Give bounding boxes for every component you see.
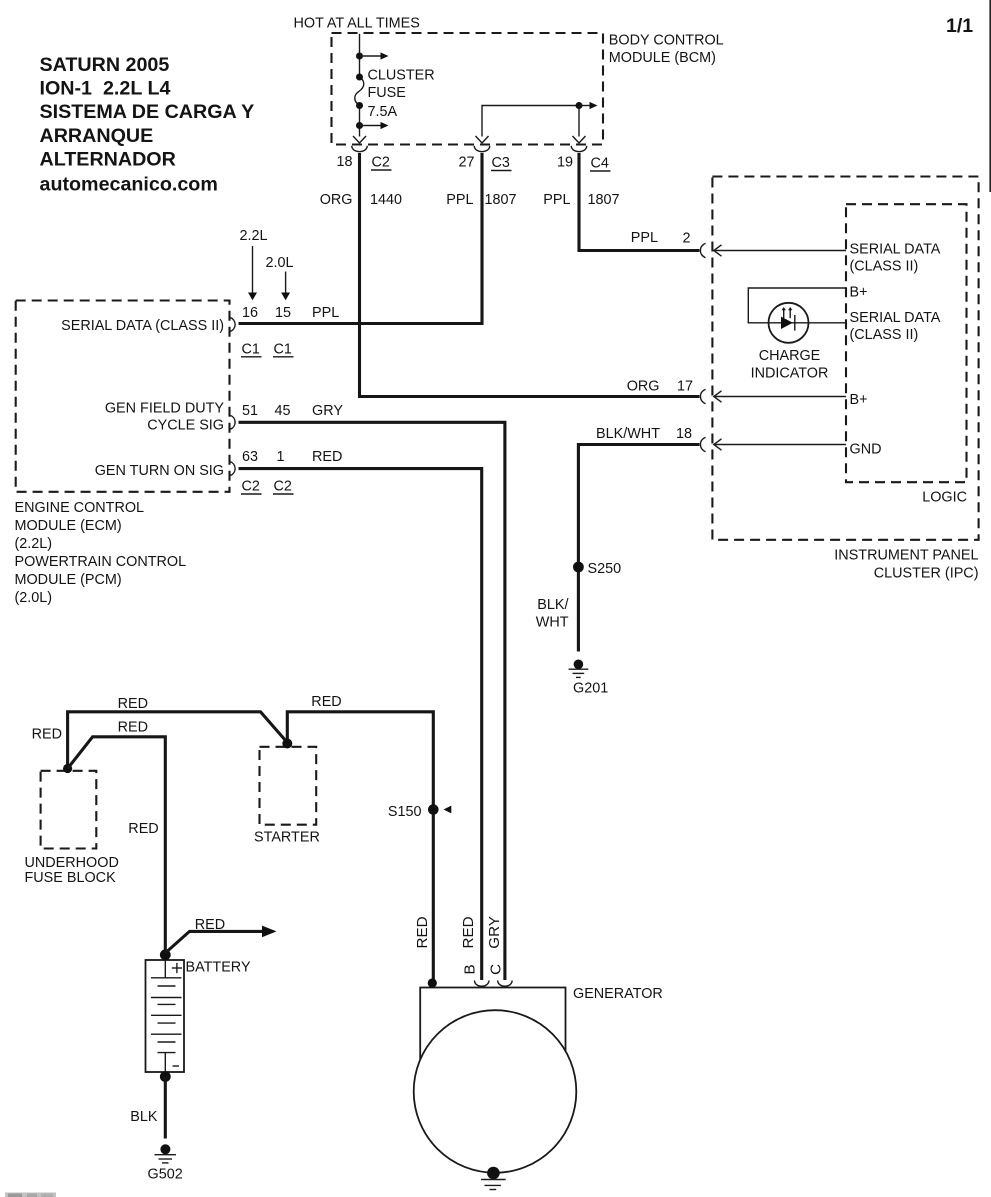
scan artifact right edge — [989, 0, 991, 192]
svg-text:SATURN 2005: SATURN 2005 — [40, 54, 170, 76]
svg-text:POWERTRAIN CONTROL: POWERTRAIN CONTROL — [15, 554, 187, 570]
svg-text:FUSE BLOCK: FUSE BLOCK — [25, 870, 117, 886]
svg-text:SERIAL DATA: SERIAL DATA — [850, 241, 941, 257]
generator housing box — [420, 988, 565, 1070]
wire RED underhood fuse block to starter and S150 — [68, 712, 288, 767]
svg-text:1440: 1440 — [370, 192, 402, 208]
svg-text:7.5A: 7.5A — [368, 104, 398, 120]
svg-text:GEN TURN ON SIG: GEN TURN ON SIG — [95, 463, 224, 479]
label UNDERHOOD FUSE BLOCK — [25, 855, 119, 886]
wire ORG C2 to IPC pin 17 — [360, 153, 700, 397]
svg-text:C: C — [488, 964, 505, 975]
svg-text:C3: C3 — [492, 155, 510, 171]
svg-text:(CLASS II): (CLASS II) — [850, 258, 919, 274]
svg-text:BLK/: BLK/ — [537, 597, 568, 613]
charge indicator lamp circle — [769, 303, 809, 343]
svg-text:RED: RED — [460, 916, 477, 948]
LOGIC pin label B+ upper — [850, 284, 868, 300]
svg-text:B+: B+ — [850, 284, 868, 300]
label LOGIC — [922, 490, 967, 506]
svg-text:CYCLE SIG: CYCLE SIG — [147, 417, 224, 433]
starter box — [260, 747, 317, 825]
svg-text:BODY CONTROL: BODY CONTROL — [609, 32, 724, 48]
svg-text:UNDERHOOD: UNDERHOOD — [25, 855, 119, 871]
svg-text:FUSE: FUSE — [368, 85, 406, 101]
underhood fuse block box — [41, 771, 97, 849]
wire PPL C4 to IPC pin 2 — [579, 153, 700, 251]
ECM pin name SERIAL DATA (CLASS II) — [61, 318, 224, 334]
ECM pin name GEN TURN ON SIG — [95, 463, 224, 479]
svg-text:RED: RED — [414, 916, 431, 948]
svg-text:1807: 1807 — [485, 192, 517, 208]
junction dot on starter — [282, 739, 292, 749]
LED symbol of charge indicator — [781, 315, 795, 331]
svg-text:2: 2 — [682, 231, 690, 247]
svg-text:1807: 1807 — [588, 192, 620, 208]
LOGIC pin label GND — [850, 441, 882, 457]
engine control module ECM box — [16, 301, 230, 492]
svg-text:PPL: PPL — [543, 192, 570, 208]
wire label RED battery drop — [128, 821, 158, 837]
svg-text:RED: RED — [32, 726, 62, 742]
ground G201 — [569, 660, 609, 697]
pin 27 label and C3 — [458, 155, 509, 172]
svg-text:WHT: WHT — [536, 614, 569, 630]
svg-text:MODULE (PCM): MODULE (PCM) — [15, 572, 122, 588]
svg-text:17: 17 — [677, 378, 693, 394]
svg-text:51: 51 — [242, 403, 258, 419]
generator RED entry junction dot — [428, 978, 437, 987]
splice S150 with arrow — [388, 804, 451, 820]
arrow into connector C2 — [353, 136, 366, 143]
pin labels 16 15 PPL — [242, 305, 339, 321]
label 2.2L with arrow to pin 16 — [240, 228, 268, 244]
wire RED battery feed arrow — [165, 926, 276, 953]
svg-text:19: 19 — [557, 155, 573, 171]
svg-text:ORG: ORG — [627, 378, 660, 394]
svg-text:ORG: ORG — [320, 192, 353, 208]
svg-text:MODULE (ECM): MODULE (ECM) — [15, 518, 122, 534]
battery positive terminal dot — [160, 949, 171, 960]
wire label PPL 1807 (C4) — [543, 192, 619, 208]
fuse tap arrow top — [360, 52, 389, 59]
svg-text:63: 63 — [242, 449, 258, 465]
svg-text:(CLASS II): (CLASS II) — [850, 327, 919, 343]
ECM caption text — [15, 500, 187, 606]
svg-text:15: 15 — [275, 305, 291, 321]
svg-text:GRY: GRY — [486, 916, 503, 949]
label CLUSTER FUSE 7.5A — [368, 68, 435, 121]
svg-text:S150: S150 — [388, 804, 422, 820]
svg-text:B: B — [462, 964, 479, 974]
pin 18 label and C2 — [336, 154, 389, 171]
fuse tap arrow bottom — [360, 122, 389, 129]
wire label ORG 1440 — [320, 192, 402, 208]
battery plus sign — [172, 963, 182, 973]
terminal label B rotated — [462, 964, 479, 974]
svg-text:BATTERY: BATTERY — [186, 959, 251, 975]
LED emission arrows — [782, 307, 793, 318]
connector C3 arc — [474, 146, 490, 152]
svg-text:CLUSTER (IPC): CLUSTER (IPC) — [874, 566, 979, 582]
svg-text:16: 16 — [242, 305, 258, 321]
svg-text:HOT AT ALL TIMES: HOT AT ALL TIMES — [294, 16, 420, 32]
wire label RED top — [118, 696, 148, 712]
wire label BLK — [130, 1109, 158, 1125]
wire label RED second — [118, 720, 148, 736]
pin labels 63 1 RED — [242, 449, 342, 465]
battery negative terminal dot — [160, 1071, 171, 1082]
splice S250 — [573, 561, 621, 577]
pin 19 label and C4 — [557, 155, 609, 172]
wire label RED battery arrow — [195, 917, 225, 933]
svg-text:C2: C2 — [274, 479, 292, 495]
label 2.0L with arrow to pin 15 — [266, 255, 294, 271]
svg-text:automecanico.com: automecanico.com — [40, 173, 218, 195]
instrument panel cluster IPC box — [712, 177, 978, 540]
svg-text:S250: S250 — [588, 561, 622, 577]
junction dot on fuse block — [63, 764, 72, 773]
arrow into connector C3 — [476, 136, 489, 143]
svg-text:BLK/WHT: BLK/WHT — [596, 426, 660, 442]
body control module BCM box — [332, 33, 604, 145]
wire label RED starter right — [311, 694, 341, 710]
scan artifact bottom left — [5, 1193, 56, 1197]
wire label RED rotated (terminal B) — [460, 916, 477, 948]
svg-text:GENERATOR: GENERATOR — [573, 986, 663, 1002]
title block — [40, 54, 255, 195]
wire label BLK/WHT vertical — [536, 597, 569, 630]
svg-text:B+: B+ — [850, 392, 868, 408]
svg-text:SERIAL DATA (CLASS II): SERIAL DATA (CLASS II) — [61, 318, 224, 334]
connector labels C1 C1 — [242, 341, 292, 357]
wire RED fuse block to battery — [68, 737, 166, 952]
svg-text:18: 18 — [676, 426, 692, 442]
svg-text:27: 27 — [458, 155, 474, 171]
wire RED ECM to generator B — [239, 469, 482, 980]
B+ loop wire to charge indicator — [748, 288, 846, 323]
wire PPL C3 to ECM pin 16/15 — [239, 153, 483, 324]
terminal label C rotated — [488, 964, 505, 975]
svg-text:SERIAL DATA: SERIAL DATA — [850, 310, 941, 326]
svg-text:INDICATOR: INDICATOR — [751, 365, 829, 381]
IPC pin 2 connector arc and arrow — [700, 243, 846, 257]
ECM connector arc pin 63/1 — [230, 461, 235, 475]
svg-text:PPL: PPL — [312, 305, 339, 321]
svg-text:C1: C1 — [242, 341, 260, 357]
svg-text:ENGINE CONTROL: ENGINE CONTROL — [15, 500, 145, 516]
svg-text:BLK: BLK — [130, 1109, 158, 1125]
svg-text:INSTRUMENT PANEL: INSTRUMENT PANEL — [834, 548, 978, 564]
svg-text:2.2L: 2.2L — [240, 228, 268, 244]
LOGIC box — [846, 204, 967, 482]
svg-text:18: 18 — [336, 154, 352, 170]
label BATTERY — [186, 959, 251, 975]
wire fuse output — [359, 106, 361, 137]
svg-text:G502: G502 — [148, 1166, 183, 1182]
svg-text:1/1: 1/1 — [946, 15, 973, 37]
arrow to BCM right edge — [579, 102, 598, 109]
junction dot BCM internal — [576, 102, 583, 109]
svg-text:RED: RED — [118, 720, 148, 736]
wire fuse feed from box top — [359, 34, 361, 77]
wire label PPL 2 — [631, 230, 691, 247]
svg-text:1: 1 — [276, 449, 284, 465]
label GENERATOR — [573, 986, 663, 1002]
ECM pin name GEN FIELD DUTY CYCLE SIG — [105, 401, 225, 434]
connector labels C2 C2 — [242, 479, 292, 495]
svg-text:C4: C4 — [591, 156, 609, 172]
wire label ORG 17 — [627, 378, 693, 394]
svg-text:2.0L: 2.0L — [266, 255, 294, 271]
wire label BLK/WHT 18 — [596, 426, 692, 442]
BCM internal wire to C3 and C4 — [482, 106, 579, 137]
svg-text:RED: RED — [195, 917, 225, 933]
svg-text:STARTER: STARTER — [254, 830, 320, 846]
wire GRY ECM to generator C — [239, 422, 505, 980]
LOGIC pin label SERIAL DATA (CLASS II) lower — [850, 310, 941, 343]
label BODY CONTROL MODULE (BCM) — [609, 32, 724, 66]
svg-text:ION-1 2.2L L4: ION-1 2.2L L4 — [40, 78, 171, 100]
label INSTRUMENT PANEL CLUSTER (IPC) — [834, 548, 978, 582]
IPC pin 17 connector arc and arrow — [700, 389, 846, 403]
wire BLK battery to G502 — [164, 1077, 167, 1139]
cluster fuse 7.5A element — [355, 77, 364, 106]
svg-text:RED: RED — [311, 694, 341, 710]
generator circle — [414, 1010, 577, 1173]
svg-text:SISTEMA DE CARGA Y: SISTEMA DE CARGA Y — [40, 101, 255, 123]
connector C4 arc — [571, 146, 587, 152]
battery box — [146, 960, 185, 1072]
svg-text:CLUSTER: CLUSTER — [368, 68, 435, 84]
svg-text:C2: C2 — [372, 155, 390, 171]
wire label GRY rotated (terminal C) — [486, 916, 503, 949]
ground G502 — [148, 1144, 183, 1182]
svg-text:G201: G201 — [573, 680, 608, 696]
connector C2 arc — [352, 146, 368, 152]
wire label PPL 1807 (C3) — [446, 192, 516, 208]
generator connector arc terminal B — [474, 980, 489, 986]
pin labels 51 45 GRY — [242, 403, 343, 419]
net label HOT AT ALL TIMES — [294, 16, 420, 32]
wire label RED left — [32, 726, 62, 742]
svg-text:LOGIC: LOGIC — [922, 490, 967, 506]
svg-text:RED: RED — [312, 449, 342, 465]
wire label RED rotated (S150 drop) — [414, 916, 431, 948]
wire BLK/WHT IPC pin 18 to ground — [578, 445, 699, 652]
ECM connector arc pin 16/15 — [230, 317, 235, 331]
LOGIC pin label SERIAL DATA (CLASS II) upper — [850, 241, 941, 274]
svg-text:(2.2L): (2.2L) — [15, 536, 53, 552]
svg-text:PPL: PPL — [631, 230, 658, 246]
svg-text:PPL: PPL — [446, 192, 473, 208]
junction dots on fuse wire — [356, 53, 363, 130]
svg-text:(2.0L): (2.0L) — [15, 590, 53, 606]
page number 1/1 — [946, 15, 973, 37]
generator case ground — [481, 1167, 506, 1190]
svg-text:ARRANQUE: ARRANQUE — [40, 125, 154, 147]
svg-text:GEN FIELD DUTY: GEN FIELD DUTY — [105, 401, 225, 417]
IPC pin 18 connector arc and arrow — [700, 437, 846, 451]
svg-text:RED: RED — [128, 821, 158, 837]
battery cell plates — [151, 960, 182, 1072]
label CHARGE INDICATOR — [751, 348, 829, 381]
svg-text:C2: C2 — [242, 479, 260, 495]
svg-text:MODULE (BCM): MODULE (BCM) — [609, 50, 716, 66]
svg-text:GRY: GRY — [312, 403, 343, 419]
svg-text:RED: RED — [118, 696, 148, 712]
svg-text:C1: C1 — [274, 341, 292, 357]
label STARTER — [254, 830, 320, 846]
svg-text:GND: GND — [850, 441, 882, 457]
LOGIC pin label B+ lower — [850, 392, 868, 408]
svg-text:CHARGE: CHARGE — [759, 348, 821, 364]
arrow into connector C4 — [573, 136, 586, 143]
svg-text:ALTERNADOR: ALTERNADOR — [40, 148, 176, 170]
ECM connector arc pin 51/45 — [230, 415, 235, 429]
svg-text:45: 45 — [274, 403, 290, 419]
generator connector arc terminal C — [498, 980, 513, 986]
